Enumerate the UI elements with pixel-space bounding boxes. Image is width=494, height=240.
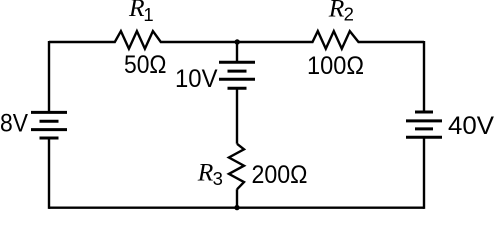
svg-text:3: 3 [213,168,223,189]
svg-text:200Ω: 200Ω [252,161,308,189]
svg-text:50Ω: 50Ω [124,51,167,79]
svg-text:40V: 40V [448,112,494,140]
svg-text:2: 2 [344,3,354,24]
svg-text:8V: 8V [0,109,28,137]
svg-text:1: 1 [143,4,153,25]
svg-text:100Ω: 100Ω [307,52,364,80]
svg-text:R: R [328,0,345,23]
svg-text:R: R [197,157,214,186]
svg-text:10V: 10V [175,65,218,93]
